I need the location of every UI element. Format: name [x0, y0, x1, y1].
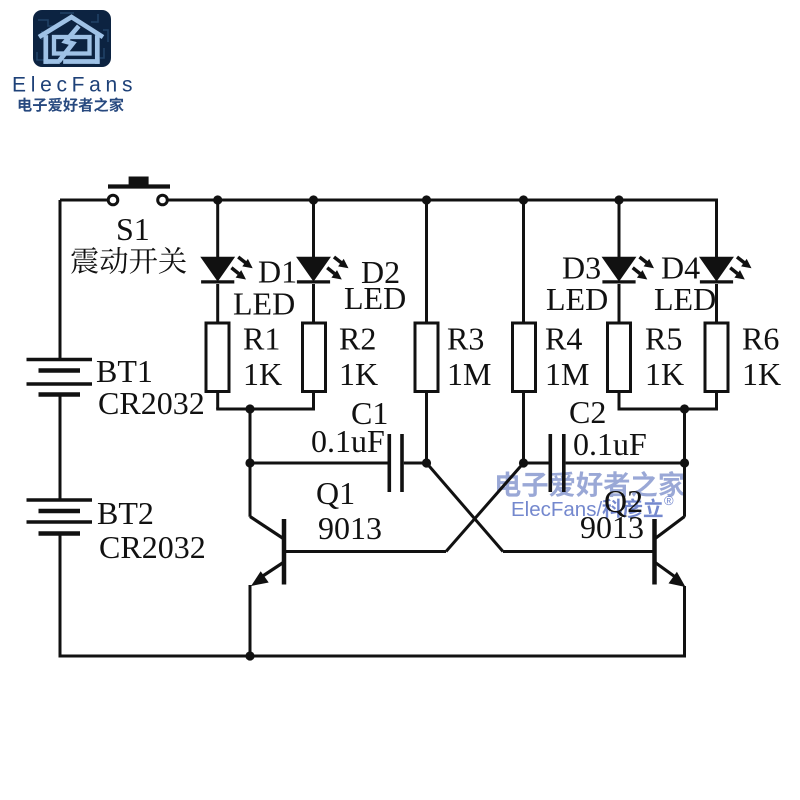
wire R4 bottom: [522, 392, 525, 464]
LED D4: [700, 257, 752, 282]
svg-text:9013: 9013: [580, 509, 644, 545]
resistor R4: [513, 323, 536, 392]
junction top rail / D1: [213, 195, 222, 204]
svg-text:CR2032: CR2032: [99, 529, 206, 565]
svg-text:®: ®: [664, 493, 674, 508]
svg-text:R3: R3: [447, 321, 484, 357]
svg-text:CR2032: CR2032: [98, 385, 205, 421]
wire cross-couple C2 to Q1 base: [446, 463, 524, 552]
wire R5-R6 junction bar: [618, 408, 719, 411]
watermark 电子爱好者之家: [497, 471, 684, 497]
svg-text:0.1uF: 0.1uF: [311, 423, 385, 459]
svg-text:1K: 1K: [742, 356, 781, 392]
transistor Q1: [250, 517, 284, 587]
junction bottom rail / Q1 emitter: [245, 651, 254, 660]
wire left rail lower: [59, 534, 62, 657]
transistor Q2: [655, 517, 686, 588]
svg-text:LED: LED: [546, 281, 608, 317]
resistor R6: [705, 323, 728, 392]
svg-text:1M: 1M: [447, 356, 491, 392]
wire Q1 emitter drop: [249, 585, 252, 656]
svg-text:1K: 1K: [645, 356, 684, 392]
svg-text:1K: 1K: [339, 356, 378, 392]
wire Q1 base lead: [286, 550, 446, 553]
wire D4 branch drop: [715, 199, 718, 259]
wire left rail middle: [59, 395, 62, 501]
svg-text:C2: C2: [569, 394, 606, 430]
junction top rail / D2: [309, 195, 318, 204]
wire D3 cathode to R5: [618, 284, 621, 323]
label S1 震动开关: [71, 247, 186, 274]
wire Q2 base lead: [503, 550, 653, 553]
wire D1 cathode to R1: [216, 284, 219, 323]
svg-text:LED: LED: [233, 286, 295, 322]
wire Q2 emitter drop: [683, 586, 686, 658]
wire Q2 collector riser: [683, 409, 686, 517]
wire R3 top: [425, 200, 428, 323]
battery BT1: [27, 360, 93, 395]
junction R5R6 node: [680, 404, 689, 413]
LED D2: [297, 257, 349, 282]
junction top rail / R4: [519, 195, 528, 204]
svg-text:Q1: Q1: [316, 475, 355, 511]
svg-text:BT1: BT1: [96, 353, 153, 389]
wire R1 bottom: [216, 392, 219, 410]
wire C1 left lead: [250, 462, 388, 465]
svg-text:D1: D1: [258, 254, 297, 290]
wire R1-R2 junction bar: [216, 408, 315, 411]
wire bottom rail: [59, 655, 685, 658]
svg-text:LED: LED: [654, 281, 716, 317]
LED D1: [201, 257, 253, 282]
resistor R3: [415, 323, 438, 392]
svg-text:R5: R5: [645, 321, 682, 357]
wire R3 bottom: [425, 392, 428, 464]
svg-text:0.1uF: 0.1uF: [573, 426, 647, 462]
wire D2 cathode to R2: [312, 284, 315, 323]
wire cross-couple C1 to Q2 base: [427, 463, 504, 552]
svg-text:R4: R4: [545, 321, 582, 357]
wire D3 anode: [618, 200, 621, 258]
wire C1 right lead: [404, 462, 427, 465]
svg-text:ElecFans: ElecFans: [12, 74, 137, 97]
switch S1: [108, 177, 170, 205]
wire R6 bottom: [715, 392, 718, 410]
junction C1 left node: [245, 458, 254, 467]
resistor R1: [206, 323, 229, 392]
LED D3: [602, 257, 654, 282]
svg-text:R2: R2: [339, 321, 376, 357]
svg-text:S1: S1: [116, 211, 150, 247]
capacitor C2: [550, 434, 564, 492]
wire R4 top: [522, 200, 525, 323]
wire Q1 collector riser: [249, 409, 252, 517]
wire C2 right lead: [566, 462, 685, 465]
wire C2 left lead: [524, 462, 549, 465]
svg-text:LED: LED: [344, 280, 406, 316]
wire D2 anode: [312, 200, 315, 258]
junction R4/C2 node: [519, 458, 528, 467]
resistor R2: [303, 323, 326, 392]
wire top rail right segment: [167, 199, 716, 202]
ElecFans logo badge: [33, 10, 111, 67]
svg-text:9013: 9013: [318, 510, 382, 546]
wire left rail upper: [59, 200, 62, 360]
junction R3/C1/Q2-base node: [422, 458, 431, 467]
wire D1 anode: [216, 200, 219, 258]
svg-text:R6: R6: [742, 321, 779, 357]
svg-text:BT2: BT2: [97, 495, 154, 531]
junction top rail / D3: [614, 195, 623, 204]
svg-text:1M: 1M: [545, 356, 589, 392]
svg-text:1K: 1K: [243, 356, 282, 392]
junction top rail / R3: [422, 195, 431, 204]
logo subtitle 电子爱好者之家: [19, 97, 124, 111]
junction C2/Q2-collector node: [680, 458, 689, 467]
svg-text:R1: R1: [243, 321, 280, 357]
wire R2 bottom: [312, 392, 315, 410]
resistor R5: [608, 323, 631, 392]
wire R5 bottom: [618, 392, 621, 410]
wire top rail left segment: [60, 199, 108, 202]
wire D4 cathode to R6: [715, 284, 718, 323]
capacitor C1: [389, 434, 402, 492]
battery BT2: [27, 500, 93, 534]
junction R1R2 node: [245, 404, 254, 413]
